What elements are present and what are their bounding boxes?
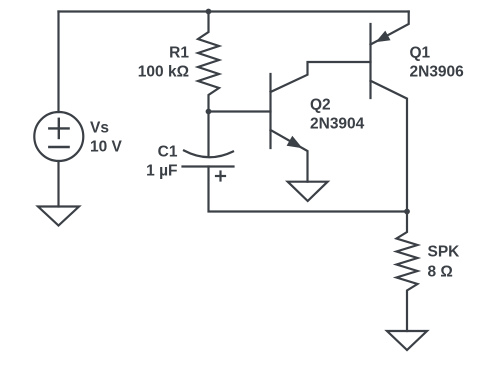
ground G2: [288, 182, 328, 201]
svg-text:C1: C1: [158, 144, 178, 161]
svg-text:Q2: Q2: [310, 97, 331, 114]
svg-text:100 kΩ: 100 kΩ: [138, 64, 189, 81]
capacitor C1: [207, 112, 209, 157]
svg-text:Vs: Vs: [90, 119, 109, 136]
speaker SPK: [397, 212, 418, 332]
resistor R1: [198, 12, 219, 112]
svg-text:2N3904: 2N3904: [310, 116, 365, 133]
transistor Q2: [269, 74, 271, 148]
node B junction dot R1/C1/Q2: [206, 109, 212, 115]
svg-text:Q1: Q1: [410, 45, 431, 62]
svg-text:SPK: SPK: [428, 244, 461, 261]
svg-text:1 µF: 1 µF: [146, 163, 177, 180]
arrow Q1 emitter: [376, 31, 391, 42]
node C junction dot bottom: [404, 209, 410, 215]
wire Q2 base: [209, 110, 271, 112]
transistor Q1: [369, 24, 371, 98]
wire C1 bottom rail: [209, 167, 408, 212]
svg-text:R1: R1: [169, 45, 189, 62]
ground G1: [38, 207, 79, 226]
ground G3: [387, 331, 427, 350]
node A junction dot top: [206, 9, 212, 15]
arrow Q2 emitter: [287, 136, 303, 149]
svg-text:2N3906: 2N3906: [410, 64, 465, 81]
wire top rail: [59, 10, 409, 12]
voltage source Vs: [34, 112, 83, 161]
svg-text:10 V: 10 V: [90, 139, 123, 156]
wire Vs top: [57, 12, 59, 113]
svg-text:8 Ω: 8 Ω: [428, 264, 453, 281]
wire Vs bottom: [57, 161, 59, 207]
